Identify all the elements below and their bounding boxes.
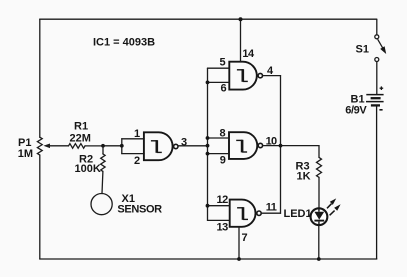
svg-text:8: 8 xyxy=(220,127,226,139)
junction node pin6 xyxy=(206,81,210,85)
gate IC1c output bubble xyxy=(258,143,262,147)
wire pin 8 stub xyxy=(208,137,230,139)
svg-text:R1: R1 xyxy=(74,121,88,133)
junction node gate1 input tie xyxy=(120,144,124,148)
switch S1 xyxy=(375,19,383,94)
wire LED to bottom rail xyxy=(318,226,320,259)
svg-text:22M: 22M xyxy=(70,132,91,144)
wire pin 2 stub xyxy=(122,153,144,155)
junction node output bus xyxy=(279,144,283,148)
wire top rail xyxy=(40,18,377,20)
wire R2 to sensor xyxy=(101,171,104,193)
resistor R3 xyxy=(317,157,322,177)
svg-text:1M: 1M xyxy=(18,148,33,160)
svg-text:6: 6 xyxy=(221,82,227,94)
wire pin 14 xyxy=(240,19,242,62)
potentiometer P1 xyxy=(37,137,42,155)
junction node R1 R2 xyxy=(101,144,105,148)
junction node pin8 xyxy=(206,136,210,140)
svg-text:9: 9 xyxy=(220,154,226,166)
junction node pin7 bottom xyxy=(237,257,241,261)
svg-text:11: 11 xyxy=(266,202,277,214)
gate IC1b schmitt symbol xyxy=(237,69,243,71)
svg-text:4: 4 xyxy=(267,65,274,77)
wire pin 6 stub xyxy=(208,81,230,83)
wire R2 top stub xyxy=(102,146,104,154)
LED LED1 xyxy=(311,208,328,225)
wire left side lower (P1 to bottom rail) xyxy=(39,155,41,259)
LED1 light arrow 1 xyxy=(327,198,336,208)
svg-text:IC1 = 4093B: IC1 = 4093B xyxy=(93,37,155,49)
wire junction to gate1 inputs xyxy=(103,145,121,147)
svg-text:1: 1 xyxy=(134,128,140,140)
wire pin 11 output xyxy=(261,212,280,214)
wire pin 10 output xyxy=(263,145,319,147)
gate IC1a schmitt symbol xyxy=(151,140,157,142)
S1 arrowhead xyxy=(380,46,386,54)
wire output bus vertical xyxy=(280,76,282,214)
wire pin 5 stub xyxy=(208,67,230,69)
wire pin 1 stub xyxy=(122,138,144,140)
wire R3 to LED xyxy=(318,177,320,207)
wire bottom rail xyxy=(40,258,377,260)
junction node LED bottom xyxy=(317,257,321,261)
svg-text:12: 12 xyxy=(217,194,229,206)
wire pin 4 output xyxy=(263,75,281,77)
wire pin 7 xyxy=(238,227,240,259)
svg-text:7: 7 xyxy=(242,232,248,244)
resistor R1 xyxy=(69,144,86,149)
wire gate1 input tie bar xyxy=(121,139,123,154)
svg-text:14: 14 xyxy=(242,48,255,60)
battery minus sign xyxy=(379,109,382,111)
svg-text:6/9V: 6/9V xyxy=(345,104,367,116)
junction node pin12 xyxy=(206,204,210,208)
gate IC1d output bubble xyxy=(257,211,261,215)
wire pin 9 stub xyxy=(208,153,230,155)
battery plus sign xyxy=(380,86,384,90)
svg-text:3: 3 xyxy=(181,136,187,148)
LED1 light arrow 2 xyxy=(330,204,341,215)
wire pin 12 stub xyxy=(208,205,230,207)
junction node top rail pin14 xyxy=(239,17,243,21)
svg-text:SENSOR: SENSOR xyxy=(117,204,162,216)
svg-text:2: 2 xyxy=(134,155,140,167)
NAND gate IC1d body (pins 12,13,11) xyxy=(230,200,256,227)
svg-text:LED1: LED1 xyxy=(284,208,312,220)
battery B1 xyxy=(366,95,384,259)
NAND gate IC1c body (pins 8,9,10) xyxy=(229,132,257,159)
gate IC1b output bubble xyxy=(258,73,262,77)
svg-text:100K: 100K xyxy=(75,163,101,175)
P1 wiper arrow xyxy=(50,145,69,147)
svg-text:10: 10 xyxy=(266,135,277,147)
NAND gate IC1a body (pins 1,2,3) xyxy=(144,132,173,160)
junction node bus gate1 out xyxy=(206,144,210,148)
svg-text:1K: 1K xyxy=(297,171,311,183)
wire left side upper (top rail to P1) xyxy=(39,19,41,137)
gate IC1c schmitt symbol xyxy=(236,139,242,141)
wire to R3 xyxy=(318,146,320,158)
svg-text:5: 5 xyxy=(220,57,226,69)
svg-text:S1: S1 xyxy=(356,43,369,55)
wire R1 to junction xyxy=(85,145,103,147)
gate IC1d schmitt symbol xyxy=(237,207,243,209)
wire pin 13 stub xyxy=(208,219,230,221)
resistor R2 xyxy=(101,154,105,172)
sensor X1 xyxy=(91,194,112,215)
wire input bus vertical xyxy=(207,68,209,220)
NAND gate IC1b body (pins 5,6,4) xyxy=(229,62,257,90)
svg-text:13: 13 xyxy=(217,222,229,234)
junction node pin9 xyxy=(206,152,210,156)
wire gate1 output xyxy=(178,145,207,147)
gate IC1a output bubble xyxy=(174,144,178,148)
